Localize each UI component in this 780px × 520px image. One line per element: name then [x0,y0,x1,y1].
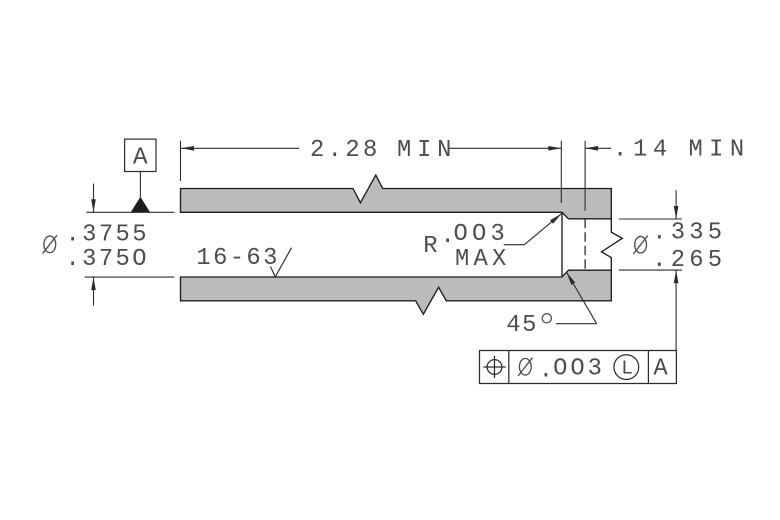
svg-text:.: . [613,137,627,164]
svg-text:.265: .265 [652,247,726,274]
svg-text:16-63: 16-63 [196,245,279,272]
svg-text:R: R [423,233,437,260]
svg-text:2.28: 2.28 [310,137,381,164]
svg-text:A: A [653,356,668,383]
svg-text:MAX: MAX [455,246,510,273]
svg-text:MIN: MIN [689,137,751,164]
svg-text:OO3: OO3 [553,356,605,383]
svg-text:.3755: .3755 [66,222,149,249]
svg-text:.335: .335 [652,220,726,247]
svg-text:45: 45 [506,312,538,339]
svg-text:MIN: MIN [397,137,457,164]
svg-text:OO3: OO3 [454,221,509,248]
svg-text:L: L [621,358,633,380]
svg-text:14: 14 [633,137,673,164]
svg-text:A: A [133,145,148,172]
svg-text:.: . [539,357,553,384]
svg-text:.375O: .375O [66,246,149,273]
